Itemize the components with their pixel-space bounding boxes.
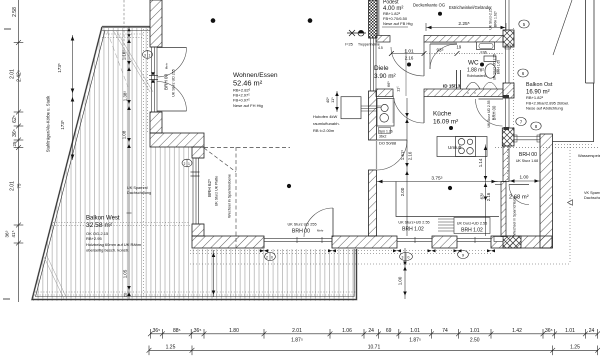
svg-text:Balkon West: Balkon West [86, 216, 120, 222]
dim vertical x=407 [405, 98, 409, 236]
svg-text:52.46 m²: 52.46 m² [233, 79, 263, 88]
svg-text:1.06: 1.06 [342, 328, 352, 334]
Diele/Kueche wall segment west [376, 89, 393, 97]
outside dim line x=68 label 173.5 [71, 35, 75, 160]
kitchen west wall lower [369, 170, 377, 236]
svg-text:Nese auf Abdichtung: Nese auf Abdichtung [526, 106, 563, 111]
svg-text:93⁵: 93⁵ [436, 48, 443, 53]
svg-text:I=25: I=25 [345, 42, 354, 47]
east wall X pier 1 [503, 30, 514, 47]
svg-text:BRH 00: BRH 00 [164, 74, 169, 91]
svg-text:Stahlträger/Alu-Körbe u. Stati: Stahlträger/Alu-Körbe u. Statik [46, 95, 51, 152]
svg-text:2.01: 2.01 [10, 181, 16, 191]
step wall pier bottom [192, 224, 204, 236]
svg-text:36⁵: 36⁵ [153, 328, 161, 334]
svg-text:1.25: 1.25 [166, 344, 176, 350]
svg-text:36x2: 36x2 [379, 135, 386, 139]
svg-text:3: 3 [144, 53, 146, 57]
2.25 dim top [426, 23, 506, 31]
svg-text:20: 20 [123, 292, 128, 297]
svg-text:2.42⁵: 2.42⁵ [17, 70, 23, 82]
west window mid ticks [149, 72, 158, 82]
dim line in south strip x=213 [212, 250, 216, 297]
WC door [430, 43, 457, 45]
svg-text:19: 19 [457, 45, 462, 50]
french door lower leaf [157, 110, 187, 112]
wall band L (y133-147) [150, 133, 204, 147]
svg-text:75: 75 [17, 183, 22, 188]
svg-text:Podest: Podest [383, 0, 399, 6]
svg-text:UK Sparren/: UK Sparren/ [127, 186, 149, 190]
top wall band segment 3 [424, 36, 503, 43]
svg-text:RB+2.95: RB+2.95 [86, 236, 102, 241]
svg-text:Wechsel in Sparrenebene: Wechsel in Sparrenebene [228, 174, 232, 218]
svg-text:Spü 1.26: Spü 1.26 [379, 130, 393, 134]
svg-text:1.01: 1.01 [410, 328, 420, 334]
west wall pier below window [150, 112, 162, 133]
south window 2 [397, 237, 432, 243]
svg-text:Holzbelag 60mm auf UK Rähm: Holzbelag 60mm auf UK Rähm [86, 242, 142, 247]
entrance door [423, 42, 425, 76]
svg-text:1.38⁵: 1.38⁵ [123, 91, 128, 102]
svg-text:36⁵: 36⁵ [5, 230, 10, 237]
dashed vertical line x=124 above balcony [123, 0, 125, 58]
Hubofen box [341, 97, 361, 119]
svg-text:173⁵: 173⁵ [57, 63, 62, 73]
kitchen island [437, 137, 487, 157]
X pier in bottom wall [503, 236, 521, 248]
west wall upper segment [150, 0, 162, 47]
svg-text:UK Sturz-2.25: UK Sturz-2.25 [489, 8, 493, 29]
stray section marks left [4, 28, 11, 30]
svg-text:Estrichwinkel/Geländer: Estrichwinkel/Geländer [449, 5, 492, 10]
svg-text:Nese auf FB Htg: Nese auf FB Htg [383, 21, 413, 26]
svg-text:FB+0.97⁵: FB+0.97⁵ [233, 98, 250, 103]
svg-text:UK Sturz UD 255: UK Sturz UD 255 [172, 69, 176, 97]
Abstell door [509, 184, 529, 186]
svg-text:UK Sturz UD 2.55: UK Sturz UD 2.55 [487, 100, 491, 127]
sill notch box [494, 237, 503, 242]
svg-text:RB t=2.00m: RB t=2.00m [313, 128, 335, 133]
svg-text:Deckenkante OG: Deckenkante OG [413, 3, 445, 8]
south window 3 [457, 237, 491, 243]
bottom wall east segment [491, 236, 552, 248]
svg-text:41⁵: 41⁵ [11, 230, 16, 237]
Balkon West outer edge (double line) [32, 27, 357, 300]
svg-text:1.61⁵: 1.61⁵ [400, 150, 405, 161]
kitchen west wall upper [369, 91, 377, 140]
svg-text:2: 2 [184, 162, 186, 166]
svg-text:BRH 1.62⁵: BRH 1.62⁵ [494, 10, 498, 27]
svg-text:0: 0 [271, 255, 273, 259]
svg-text:DO 50/88: DO 50/88 [379, 141, 397, 146]
svg-text:VK Sparren: VK Sparren [584, 191, 600, 195]
svg-text:BRH 00: BRH 00 [492, 105, 497, 120]
step wall pier top [192, 147, 204, 158]
svg-text:74: 74 [442, 328, 448, 334]
svg-text:1: 1 [149, 53, 151, 57]
svg-text:36⁵: 36⁵ [12, 129, 18, 137]
step window glazing [192, 158, 204, 224]
Diele west window glazing [369, 38, 378, 91]
svg-text:Treppenholme: Treppenholme [358, 43, 380, 47]
bottom wall mid segment [332, 236, 397, 248]
svg-text:11⁵: 11⁵ [396, 86, 401, 92]
svg-text:Diele: Diele [374, 65, 389, 72]
small dim near Hubofen [335, 91, 339, 112]
top wall band segment 1 [376, 36, 390, 43]
svg-text:3: 3 [402, 255, 404, 259]
svg-text:1.10⁵: 1.10⁵ [122, 50, 127, 61]
svg-text:BRH 00: BRH 00 [292, 229, 310, 235]
svg-text:10.71: 10.71 [368, 344, 381, 350]
svg-text:ID 15/13: ID 15/13 [443, 84, 461, 89]
svg-text:2.25⁵: 2.25⁵ [458, 21, 469, 27]
south window 1 [264, 236, 332, 248]
svg-text:F96: F96 [481, 51, 487, 55]
step window ticks [191, 172, 200, 176]
Abstell window horizontal [514, 135, 540, 142]
dotted vertical line west of wall x=147.5 [147, 29, 149, 133]
svg-text:3.90 m²: 3.90 m² [374, 73, 396, 80]
dotted vertical line x=143.5 [143, 29, 145, 299]
svg-text:BRH 00: BRH 00 [519, 152, 537, 158]
sink unit [377, 99, 394, 127]
svg-text:25: 25 [12, 141, 17, 146]
interior dim line x=129 lower with labels 1.05 / 20 [127, 210, 132, 299]
bottom dimension chain row 2 [147, 346, 600, 356]
bottom dimension chain row 1 [148, 329, 600, 339]
bottom wall pier [432, 236, 457, 248]
svg-text:2.16: 2.16 [408, 151, 413, 160]
svg-text:BRH 1.65: BRH 1.65 [497, 60, 501, 74]
svg-text:1: 1 [188, 162, 190, 166]
Balkon Ost labels [519, 20, 529, 28]
french door upper leaf [157, 47, 187, 49]
small dim arrows at balcony north edge [127, 27, 130, 38]
bottom wall west segment [192, 236, 264, 248]
svg-text:1.80: 1.80 [229, 328, 239, 334]
column dots living room [211, 18, 216, 23]
svg-text:1.00: 1.00 [398, 276, 403, 285]
svg-text:RB+1.82⁵: RB+1.82⁵ [526, 95, 544, 100]
svg-text:1.87⁵: 1.87⁵ [409, 337, 421, 343]
svg-text:2.16: 2.16 [405, 56, 414, 61]
window marker ellipse (21) [182, 159, 192, 167]
kitchen counter south [396, 182, 499, 217]
east wall X pier 3 [502, 128, 514, 146]
east wall pier 2 [503, 83, 514, 98]
svg-text:36⁵: 36⁵ [194, 328, 202, 334]
bottom wall marker bubbles [265, 253, 276, 261]
svg-text:Umluft: Umluft [448, 145, 462, 150]
right big wall vertical [540, 134, 553, 248]
dim 3.75 horizontal [377, 180, 498, 184]
dotted slope reference lines in balcony [34, 34, 356, 295]
east narrow wall below [503, 146, 509, 182]
dim 1.00 south balcony strip [403, 248, 407, 299]
svg-text:32.58 m²: 32.58 m² [86, 222, 113, 229]
duct box DD [456, 70, 458, 89]
balcony east railing [553, 0, 595, 142]
svg-text:Dachschalung: Dachschalung [127, 191, 151, 195]
rohr arch on wall [466, 82, 480, 89]
dim vertical x=485.5 [484, 145, 488, 237]
svg-text:11⁵: 11⁵ [330, 97, 335, 103]
svg-text:36⁵: 36⁵ [545, 328, 553, 334]
level marker [347, 30, 366, 36]
toilet [484, 56, 496, 62]
dotted reference lines right/bottom [190, 28, 600, 264]
svg-text:BRH 1.02: BRH 1.02 [402, 227, 424, 233]
svg-text:Mehr: Mehr [317, 229, 323, 233]
svg-text:1.42: 1.42 [512, 328, 522, 334]
svg-text:Nese auf FH Htg: Nese auf FH Htg [233, 103, 263, 108]
svg-text:Dachschalung: Dachschalung [584, 196, 600, 200]
svg-text:Balkon Ost: Balkon Ost [526, 82, 553, 88]
Balkon West deck boards [30, 26, 360, 302]
balcony north edge [102, 26, 150, 28]
svg-text:UK Durz+UD 2.55: UK Durz+UD 2.55 [457, 222, 488, 226]
dim line across doors y=53.5 [389, 51, 503, 56]
radiator lines [438, 219, 457, 231]
svg-text:BRH 1.02: BRH 1.02 [461, 228, 483, 234]
boxed window label [454, 218, 490, 234]
Abstell interior wall [501, 182, 506, 237]
svg-text:Küche: Küche [433, 111, 452, 118]
svg-text:WC: WC [468, 60, 479, 67]
svg-text:Wasserspeier: Wasserspeier [578, 153, 600, 158]
dim 1.00 Abstell [509, 179, 540, 183]
west french window glazing [150, 47, 162, 112]
window end blocks kitchen balcony door [504, 95, 510, 99]
east wall window glazing top [505, 0, 511, 83]
svg-text:UK Sturz UK Platte: UK Sturz UK Platte [215, 176, 219, 207]
svg-text:UK Sturz 1.68: UK Sturz 1.68 [516, 159, 538, 163]
kitchen balcony door [479, 98, 504, 100]
svg-text:2.16: 2.16 [486, 192, 491, 201]
svg-text:88⁵: 88⁵ [173, 328, 181, 334]
stairwell crosshatch wall [369, 0, 378, 38]
svg-text:66⁵: 66⁵ [386, 81, 391, 87]
svg-text:2: 2 [266, 255, 268, 259]
svg-text:63⁵: 63⁵ [480, 192, 485, 199]
svg-text:1.01: 1.01 [470, 328, 480, 334]
svg-text:24: 24 [368, 328, 374, 334]
dashed roof break lines [204, 147, 290, 250]
door west wall kitchen [377, 139, 407, 141]
svg-text:1.01: 1.01 [565, 328, 575, 334]
svg-text:2.01: 2.01 [292, 328, 302, 334]
drain slope line pair upper [44, 30, 153, 299]
svg-text:16.09 m²: 16.09 m² [433, 119, 458, 126]
svg-text:1.88 m²: 1.88 m² [467, 68, 484, 74]
svg-text:1.87⁵: 1.87⁵ [291, 337, 303, 343]
svg-text:4.5: 4.5 [378, 46, 383, 50]
svg-text:1.08: 1.08 [122, 130, 127, 139]
svg-text:1.05: 1.05 [123, 269, 128, 278]
svg-text:3.75⁵: 3.75⁵ [431, 176, 442, 182]
svg-text:62⁵: 62⁵ [12, 115, 18, 123]
svg-text:1.25: 1.25 [570, 344, 580, 350]
svg-text:UK Sturz+UD 2.55: UK Sturz+UD 2.55 [398, 221, 429, 225]
svg-text:2.00: 2.00 [400, 187, 405, 196]
svg-text:raumluftunabh.: raumluftunabh. [313, 121, 340, 126]
door Diele to Kueche [423, 97, 425, 124]
svg-text:1.14: 1.14 [478, 158, 483, 167]
svg-text:0: 0 [408, 255, 410, 259]
svg-text:2.58: 2.58 [12, 7, 18, 17]
svg-text:2.01: 2.01 [10, 69, 16, 79]
svg-text:Wechsel in Sparrichtung: Wechsel in Sparrichtung [513, 197, 517, 236]
svg-text:173⁵: 173⁵ [60, 120, 65, 130]
svg-text:oberseitig besch. konstr.: oberseitig besch. konstr. [86, 248, 129, 253]
svg-text:BRH 62⁵: BRH 62⁵ [207, 179, 212, 197]
podest wall face shading [378, 0, 380, 35]
south balcony door arc [332, 208, 334, 237]
svg-text:24: 24 [589, 328, 595, 334]
interior dim line x=112 with rotated labels [127, 38, 131, 210]
left vertical dimension chain [14, 0, 24, 302]
window boundary arrows on sill line [260, 249, 495, 252]
svg-text:1.00: 1.00 [520, 175, 529, 180]
Diele/Kueche wall segment east [424, 89, 503, 97]
window ref marker ellipse (31) [143, 51, 153, 59]
svg-text:69: 69 [386, 328, 392, 334]
leader line diagonal [553, 0, 572, 55]
svg-text:Mehr: Mehr [165, 63, 169, 69]
svg-text:Hubofen 4kW: Hubofen 4kW [313, 114, 337, 119]
svg-text:UK Sturz UD 255: UK Sturz UD 255 [287, 223, 316, 227]
svg-text:2.50: 2.50 [470, 337, 480, 343]
WC fixtures: washbasin [477, 42, 495, 50]
